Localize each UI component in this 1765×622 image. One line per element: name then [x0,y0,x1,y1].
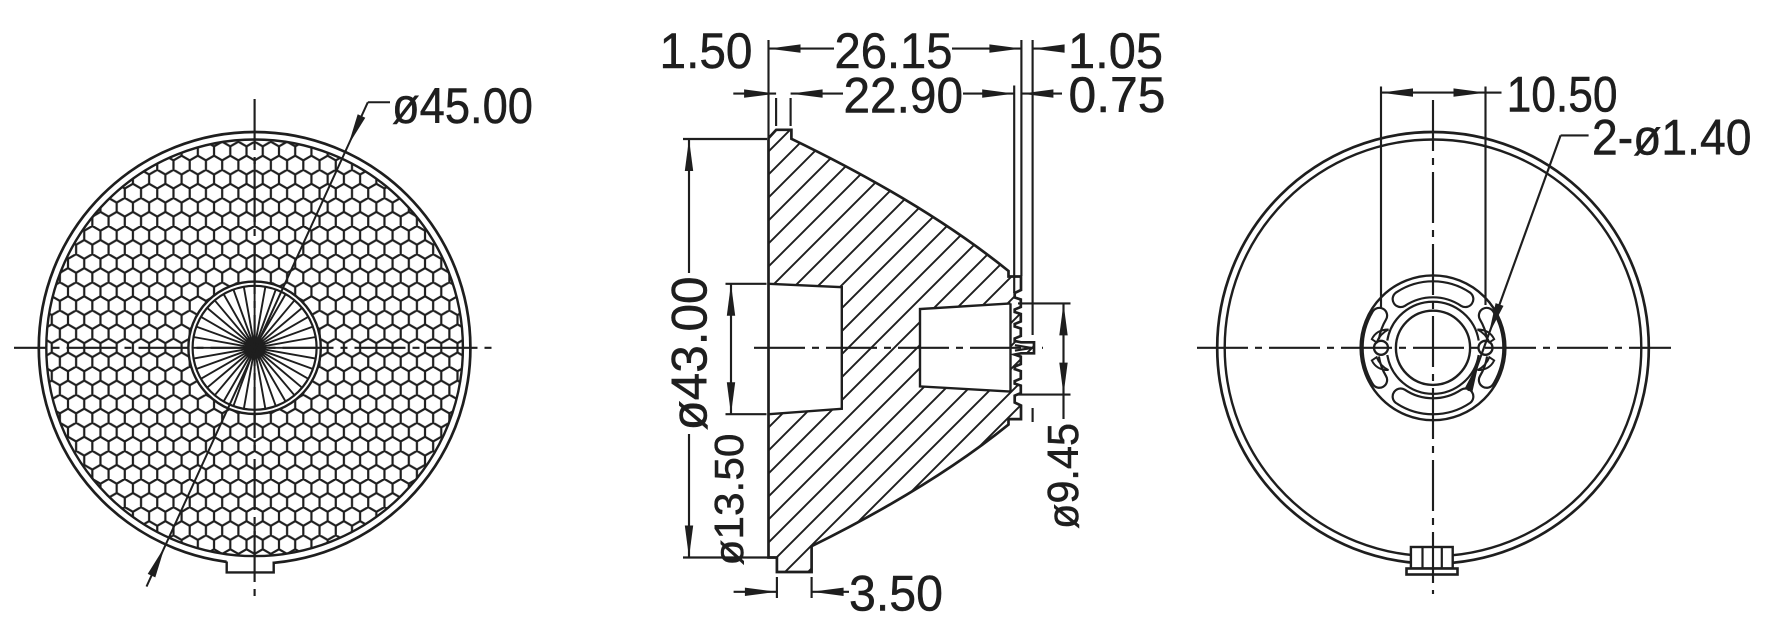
extension line: front face top, up to row1 [767,40,769,137]
svg-text:ø13.50: ø13.50 [706,434,752,566]
svg-text:ø45.00: ø45.00 [392,78,533,134]
wing details at holes (pointed slivers) [1372,330,1389,371]
extension line A (back surface) [1013,86,1015,294]
dim 3.50 (bottom tab) [776,577,778,598]
svg-text:ø43.00: ø43.00 [662,277,718,431]
svg-text:1.50: 1.50 [660,23,753,79]
hub outer circle [1361,275,1506,420]
svg-text:0.75: 0.75 [1069,67,1166,123]
svg-text:2-ø1.40: 2-ø1.40 [1592,110,1752,166]
dim row1: 26.15 and 1.05 [769,48,835,50]
dim ø43.00 (vertical, left) [683,138,767,140]
section outline [769,130,1035,572]
honeycomb lens pattern (annulus fill) [46,139,463,556]
extension line C (flange right) [1032,40,1034,335]
outer circle [39,132,471,564]
center hub ring outer [188,282,320,414]
svg-text:3.50: 3.50 [849,566,943,622]
svg-text:ø9.45: ø9.45 [1039,423,1088,529]
section center line [754,347,1043,349]
hub slots N S W E [1393,281,1474,307]
inner rim circle [46,139,463,556]
outer circle [1217,132,1649,564]
LED pocket (ø9.45) [920,303,1011,391]
left view: front face of lens [14,78,533,596]
center lines (right view) [1197,347,1671,349]
hub ring circle (broken at holes) [1387,302,1478,394]
arrowheads on 45.00 leader [348,114,365,145]
center lines (left view) [14,347,494,349]
dim row2: 1.50 / 22.90 / 0.75 [733,93,776,95]
svg-text:22.90: 22.90 [844,67,964,123]
front bore (ø13.50) [769,284,842,414]
dim ø9.45 (vertical, right) [1018,302,1071,304]
leader 2-ø1.40 [1561,134,1589,136]
dim 10.50 [1380,87,1382,310]
dim ø13.50 (vertical) [726,283,767,285]
center gate nub wedge [1015,345,1032,350]
diameter leader line for 45.00 [147,102,368,586]
bottom tab (back view) [1411,547,1453,569]
bottom tab (front view) [227,559,274,573]
center hole circle [1396,311,1470,385]
right view: back of lens [1197,67,1752,595]
inner rim circle [1225,139,1642,556]
hub radial spokes [193,286,317,410]
rim extension lines for 1.50 [775,98,777,126]
center hub ring inner [193,286,317,410]
2x ø1.40 holes [1374,341,1388,355]
extension line B (flange left) [1020,40,1022,276]
section hatching [769,130,1035,572]
middle view: cross-section [660,23,1166,622]
